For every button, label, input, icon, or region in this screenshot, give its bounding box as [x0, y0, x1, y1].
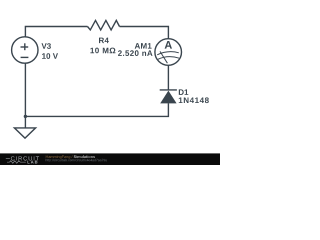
wire — [24, 63, 26, 116]
wire — [25, 27, 87, 37]
watermark text line 2 — [46, 159, 107, 162]
label 10 V — [42, 53, 58, 59]
label 1N4148 — [179, 97, 209, 103]
label 10 MΩ — [90, 48, 115, 54]
label R4 — [99, 38, 109, 44]
watermark text line 1 — [46, 155, 73, 159]
label 2.520 nA — [118, 50, 153, 56]
ground — [14, 116, 35, 138]
wire — [120, 27, 169, 39]
label AM1 — [135, 43, 152, 49]
watermark logo LAB — [7, 161, 37, 164]
node junction — [24, 115, 27, 118]
wire — [25, 103, 168, 116]
label D1 — [179, 89, 189, 95]
label V3 — [42, 43, 51, 49]
wire — [167, 65, 169, 90]
resistor R4 — [88, 20, 120, 30]
voltage source V3 — [12, 37, 38, 63]
ammeter AM1 — [155, 39, 182, 66]
label A (ammeter face) — [165, 41, 172, 49]
diode D1 — [160, 90, 177, 104]
watermark logo CIRCUIT — [6, 156, 39, 160]
watermark bar — [0, 153, 220, 165]
watermark text simulations — [74, 155, 95, 158]
